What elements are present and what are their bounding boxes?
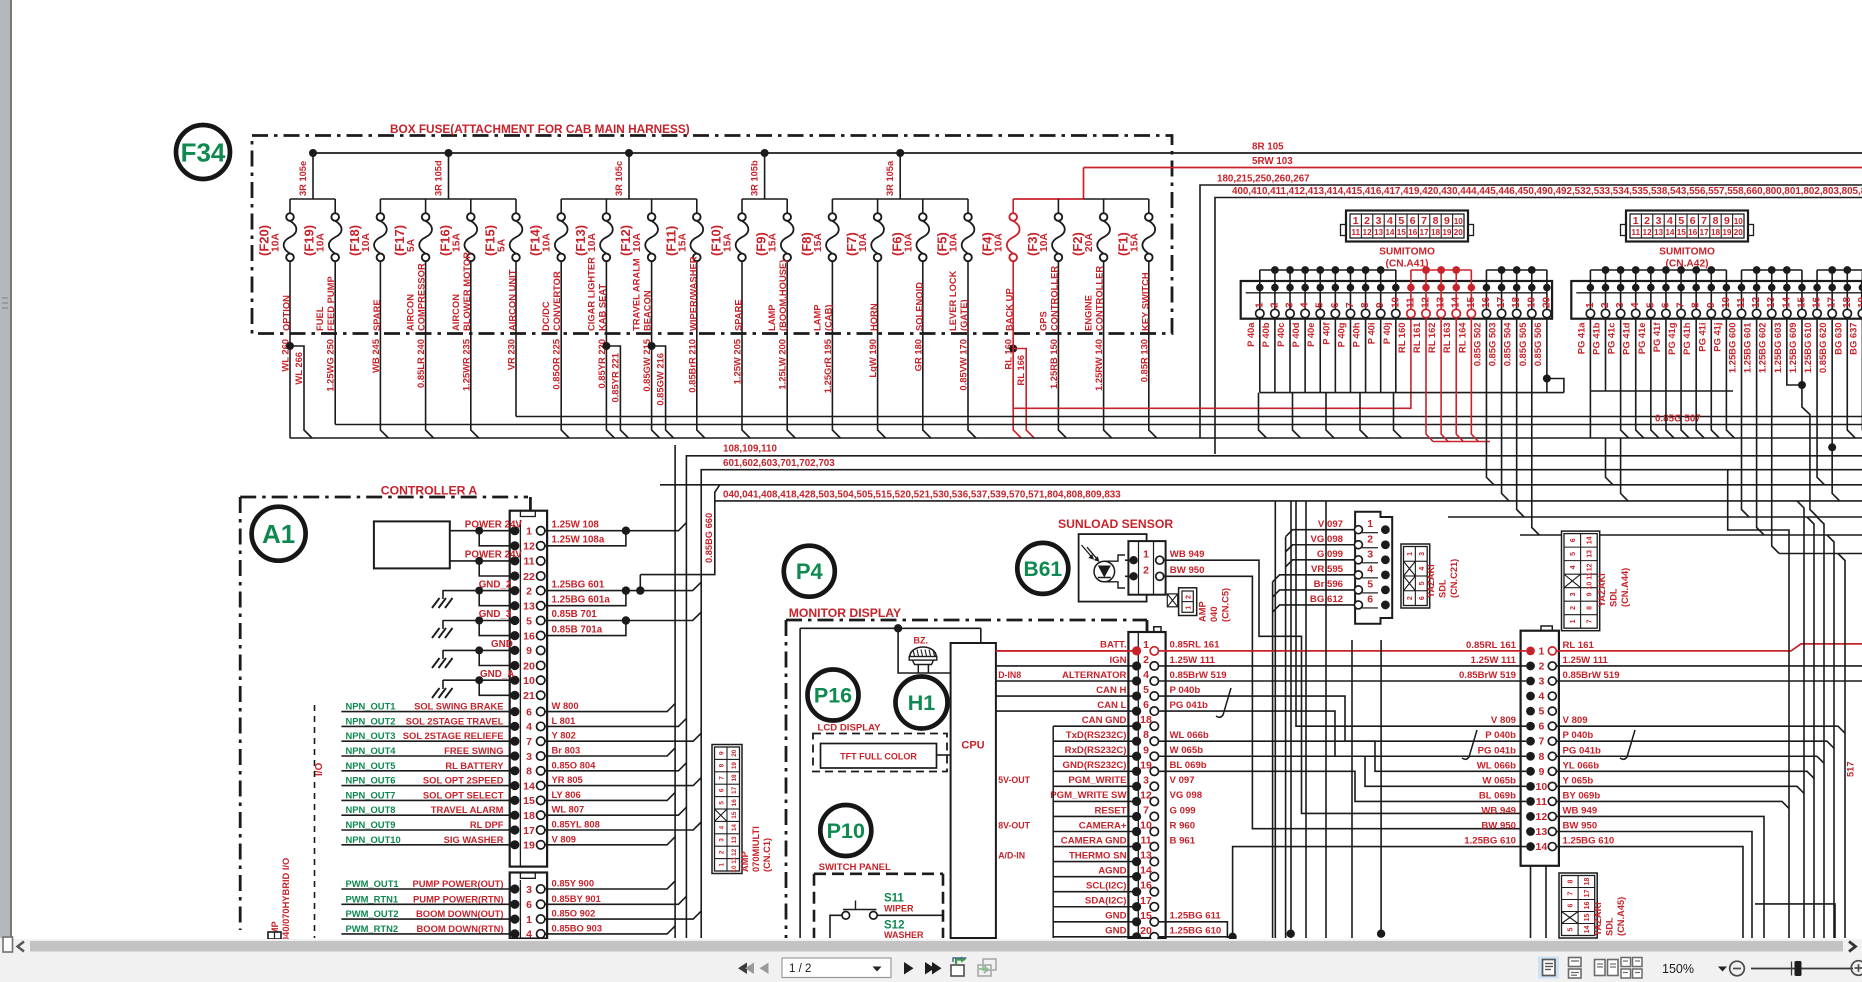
- TFT FULL COLOR block: [821, 744, 937, 769]
- svg-text:NPN_OUT6: NPN_OUT6: [346, 775, 396, 786]
- svg-text:10 11: 10 11: [1586, 572, 1593, 589]
- svg-text:5: 5: [1367, 578, 1373, 590]
- CN.A42 group bus PG41: [1590, 269, 1726, 271]
- svg-text:19: 19: [731, 762, 738, 770]
- svg-text:2: 2: [718, 850, 725, 854]
- svg-text:3: 3: [1570, 592, 1577, 596]
- svg-text:THERMO SN: THERMO SN: [1069, 850, 1127, 861]
- svg-text:0.85G 502: 0.85G 502: [1471, 323, 1482, 367]
- svg-text:3R 105e: 3R 105e: [298, 161, 308, 196]
- svg-text:13: 13: [1536, 826, 1548, 838]
- svg-text:10A: 10A: [858, 233, 869, 252]
- monitor row CAMERA+ pin 10: [1053, 820, 1195, 837]
- connector body: [1571, 281, 1862, 319]
- monitor row IGN pin 2: [996, 654, 1216, 671]
- wires A42 pins to lower trunks: [1606, 438, 1614, 485]
- toolbar layout icon single page active: [1538, 957, 1559, 979]
- svg-text:8R 105: 8R 105: [1252, 142, 1284, 153]
- monitor row RESET pin 7: [1053, 804, 1195, 821]
- svg-text:0.85B 701: 0.85B 701: [552, 609, 598, 620]
- fuse F8: [799, 199, 839, 333]
- connector map CN.A44: [1562, 531, 1600, 631]
- svg-text:0.85VW 170: 0.85VW 170: [958, 339, 969, 391]
- mid connector right wires: [1557, 726, 1846, 733]
- wire YR 805 row NPN_OUT6: [341, 774, 701, 786]
- mid connector pin 12: [1481, 805, 1597, 823]
- wires P40 gather down: [1259, 393, 1267, 438]
- mid connector pin 11: [1479, 790, 1600, 808]
- svg-text:(F6): (F6): [889, 232, 904, 256]
- svg-text:1.25BG 601a: 1.25BG 601a: [552, 594, 611, 605]
- svg-text:10 11: 10 11: [731, 857, 738, 873]
- pin 4 PG 41d: [1621, 270, 1642, 355]
- svg-text:P 40h: P 40h: [1351, 322, 1362, 347]
- wire 1.25BG 610: [1159, 936, 1233, 938]
- monitor row GND pin 15: [1053, 910, 1221, 927]
- svg-text:5: 5: [1567, 927, 1574, 931]
- fuse F16: [437, 199, 477, 333]
- svg-text:150%: 150%: [1662, 962, 1694, 976]
- svg-text:10A: 10A: [1039, 233, 1050, 252]
- svg-text:6: 6: [1567, 903, 1574, 907]
- fuse F10: [709, 199, 749, 333]
- svg-text:0.85BO 903: 0.85BO 903: [552, 922, 603, 933]
- svg-text:15: 15: [1466, 296, 1477, 308]
- svg-text:P 40e: P 40e: [1305, 323, 1316, 347]
- svg-text:0.85O 902: 0.85O 902: [552, 908, 596, 919]
- svg-text:4: 4: [1570, 565, 1577, 569]
- fuse F2: [1070, 199, 1110, 333]
- svg-text:WL 066b: WL 066b: [1477, 760, 1516, 771]
- svg-text:P 40d: P 40d: [1290, 322, 1301, 347]
- svg-text:8: 8: [1691, 302, 1702, 308]
- svg-text:P 40b: P 40b: [1260, 322, 1271, 347]
- svg-text:108,109,110: 108,109,110: [723, 444, 777, 455]
- svg-text:DC/DC: DC/DC: [540, 301, 551, 331]
- pin 2 PG 41b: [1591, 270, 1612, 355]
- svg-text:BOOM DOWN(OUT): BOOM DOWN(OUT): [416, 908, 503, 919]
- svg-text:W 800: W 800: [552, 700, 579, 711]
- svg-text:1.25BG 610: 1.25BG 610: [1802, 323, 1813, 374]
- trunk 601,602,603,701,702,703: [701, 470, 1862, 938]
- svg-text:BOOM DOWN(RTN): BOOM DOWN(RTN): [417, 923, 504, 934]
- CN.A41 group bus P40: [1260, 269, 1396, 271]
- svg-text:15: 15: [1397, 228, 1407, 237]
- mid connector pin 1: [1466, 640, 1594, 658]
- controller pin 6: [510, 899, 545, 911]
- svg-text:20: 20: [1454, 228, 1464, 237]
- svg-text:LAMP: LAMP: [811, 304, 822, 331]
- svg-text:GND_A: GND_A: [480, 669, 514, 680]
- svg-text:SDA(I2C): SDA(I2C): [1085, 896, 1127, 907]
- svg-text:(CAB): (CAB): [822, 304, 833, 331]
- svg-text:SCL(I2C): SCL(I2C): [1086, 881, 1127, 892]
- svg-text:YR 805: YR 805: [552, 774, 583, 785]
- wire 0.85YL 808 row NPN_OUT9: [341, 819, 701, 831]
- svg-text:0.85GW 216: 0.85GW 216: [655, 353, 666, 406]
- svg-text:15: 15: [523, 795, 535, 807]
- svg-text:16: 16: [1688, 228, 1698, 237]
- svg-text:(BOOM,HOUSE): (BOOM,HOUSE): [777, 260, 788, 331]
- svg-text:AGND: AGND: [1098, 865, 1126, 876]
- svg-text:0.85B 701a: 0.85B 701a: [552, 624, 603, 635]
- svg-text:6: 6: [1660, 302, 1671, 308]
- svg-text:3: 3: [1376, 215, 1382, 227]
- toolbar last page button: [925, 962, 935, 975]
- bus junction dots: [309, 149, 317, 157]
- svg-text:3R 105a: 3R 105a: [885, 160, 895, 196]
- monitor row SDA(I2C) pin 17: [1053, 895, 1158, 912]
- svg-text:P 40j: P 40j: [1381, 323, 1392, 345]
- trunk y484: [660, 484, 1862, 486]
- svg-text:3: 3: [1367, 548, 1373, 560]
- svg-text:BEACON: BEACON: [642, 290, 653, 331]
- svg-text:3R 105d: 3R 105d: [434, 160, 444, 196]
- svg-text:18: 18: [523, 810, 535, 822]
- svg-text:SDL: SDL: [1609, 588, 1619, 607]
- svg-text:15: 15: [1677, 228, 1687, 237]
- mid connector pin 7: [1485, 730, 1593, 748]
- svg-text:5: 5: [1315, 302, 1326, 308]
- svg-text:4: 4: [1300, 302, 1311, 308]
- CN.A42 group bus 1.25BG: [1742, 269, 1802, 271]
- svg-text:PG 041b: PG 041b: [1478, 745, 1517, 756]
- svg-text:PGM_WRITE SW: PGM_WRITE SW: [1050, 790, 1127, 801]
- node P10: [820, 805, 871, 856]
- pin 15 1.25BG 609: [1787, 270, 1808, 373]
- sunload pin 1: [1129, 556, 1137, 564]
- svg-text:TRAVEL ALARM: TRAVEL ALARM: [431, 804, 504, 815]
- svg-text:(F9): (F9): [754, 232, 769, 256]
- svg-text:6: 6: [1143, 699, 1149, 711]
- wire V 809 row NPN_OUT10: [341, 833, 675, 845]
- svg-text:NPN_OUT1: NPN_OUT1: [346, 701, 396, 712]
- svg-text:2: 2: [1538, 660, 1544, 672]
- svg-text:10: 10: [1721, 296, 1732, 308]
- svg-text:(F4): (F4): [980, 232, 995, 256]
- svg-text:GND: GND: [1105, 911, 1126, 922]
- pin 19 BG 637: [1847, 270, 1862, 355]
- svg-text:15A: 15A: [451, 233, 462, 252]
- svg-text:SOL OPT SELECT: SOL OPT SELECT: [423, 789, 504, 800]
- svg-text:12: 12: [731, 848, 738, 856]
- svg-text:CONTROLLER: CONTROLLER: [1048, 266, 1059, 331]
- monitor row ALTERNATOR pin 4: [996, 669, 1227, 686]
- svg-text:8: 8: [718, 763, 725, 767]
- svg-text:V 809: V 809: [1563, 715, 1588, 726]
- svg-text:5: 5: [1143, 684, 1149, 696]
- svg-text:517: 517: [1846, 761, 1856, 777]
- svg-text:LCD DISPLAY: LCD DISPLAY: [818, 723, 882, 734]
- controller pin 8: [510, 766, 545, 778]
- svg-text:20: 20: [1541, 296, 1552, 308]
- wire PG pin1 down: [1589, 391, 1591, 438]
- svg-text:17: 17: [1827, 296, 1838, 308]
- fuse F18: [347, 199, 387, 333]
- svg-text:WASHER: WASHER: [884, 930, 924, 940]
- svg-text:13: 13: [1586, 550, 1593, 558]
- svg-text:VG 098: VG 098: [1310, 534, 1343, 545]
- svg-text:0.85G 505: 0.85G 505: [1517, 323, 1528, 367]
- svg-text:13: 13: [1766, 296, 1777, 308]
- svg-text:9: 9: [526, 645, 532, 657]
- svg-text:RL 162: RL 162: [1426, 323, 1437, 354]
- svg-text:(F19): (F19): [302, 225, 317, 256]
- fuse F12: [618, 199, 658, 333]
- bus 8R 105: [313, 152, 1862, 154]
- mid connector pin 6: [1491, 715, 1588, 733]
- svg-text:3R 105b: 3R 105b: [750, 160, 760, 196]
- pin 6 P 40f: [1320, 270, 1341, 345]
- controller pin 10: [510, 675, 545, 687]
- svg-text:(F17): (F17): [392, 225, 407, 256]
- svg-text:(F3): (F3): [1025, 232, 1040, 256]
- svg-text:13: 13: [1436, 296, 1447, 308]
- svg-text:13: 13: [731, 836, 738, 844]
- svg-text:19: 19: [1526, 296, 1537, 308]
- svg-text:3: 3: [526, 884, 532, 896]
- svg-text:1.25BG 603: 1.25BG 603: [1772, 323, 1783, 374]
- svg-text:LgW 190: LgW 190: [867, 339, 878, 378]
- left sidebar strip: [0, 0, 10, 938]
- svg-text:2: 2: [1570, 606, 1577, 610]
- wire Y 802 row NPN_OUT3: [341, 730, 701, 742]
- verticals to page bottom middle: [1274, 501, 1276, 938]
- toolbar layout icon two pages continuous: [1621, 958, 1631, 967]
- svg-text:13: 13: [1654, 228, 1664, 237]
- wire 0.85Y 900 row PWM_OUT1: [341, 878, 675, 890]
- svg-text:(F2): (F2): [1070, 232, 1085, 256]
- svg-text:GND: GND: [1105, 926, 1126, 937]
- svg-text:(CN.A42): (CN.A42): [1665, 259, 1708, 270]
- svg-text:601,602,603,701,702,703: 601,602,603,701,702,703: [723, 458, 835, 469]
- fuse F17: [392, 199, 432, 333]
- monitor row THERMO SN pin 13: [1053, 850, 1158, 867]
- svg-text:15A: 15A: [1129, 233, 1140, 252]
- wire 0.85O 902 row PWM_OUT2: [341, 908, 701, 920]
- svg-text:(F11): (F11): [663, 226, 678, 256]
- svg-text:9: 9: [1586, 592, 1593, 596]
- wires 1.25BG down: [1742, 319, 1750, 517]
- right mesh long verticals: [1797, 501, 1804, 938]
- fuse F7: [844, 199, 884, 333]
- svg-text:WB 949: WB 949: [1563, 805, 1598, 816]
- svg-text:5: 5: [718, 801, 725, 805]
- svg-text:1.25RB 150: 1.25RB 150: [1048, 339, 1059, 389]
- pin 6 PG 41f: [1651, 270, 1672, 352]
- connector map AMP 070MIULTI (CN.C1): [712, 745, 742, 874]
- svg-text:9: 9: [1724, 215, 1730, 227]
- svg-text:180,215,250,260,267: 180,215,250,260,267: [1217, 174, 1310, 185]
- svg-text:KEY SWITCH: KEY SWITCH: [1139, 272, 1150, 331]
- controller power block: [374, 521, 450, 568]
- svg-text:8: 8: [1143, 729, 1149, 741]
- wire 0.85O 804 row NPN_OUT5: [341, 759, 686, 771]
- CN.A41 under-body wires: [1260, 392, 1564, 394]
- svg-text:(F14): (F14): [528, 225, 543, 256]
- controller internal dashed boundary: [314, 705, 316, 938]
- wire Br 803 row NPN_OUT4: [341, 745, 675, 757]
- controller pin 3: [510, 884, 545, 896]
- connector pin grid (CN.A41): [1341, 211, 1474, 270]
- svg-text:4: 4: [1387, 215, 1393, 227]
- svg-text:PGM_WRITE: PGM_WRITE: [1068, 775, 1127, 786]
- svg-text:P16: P16: [814, 684, 852, 708]
- svg-text:2: 2: [1367, 533, 1373, 545]
- pin 5 PG 41e: [1636, 270, 1657, 354]
- svg-text:16: 16: [1408, 228, 1418, 237]
- controller pin 7: [510, 736, 545, 748]
- svg-text:WIPER/WASHER: WIPER/WASHER: [687, 256, 698, 331]
- mid connector bottom stubs: [1530, 866, 1532, 938]
- svg-text:16: 16: [1481, 296, 1492, 308]
- pin 19 0.85G 505: [1517, 270, 1538, 366]
- svg-text:RL 161: RL 161: [1411, 323, 1422, 354]
- pin 12 1.25BG 601: [1742, 270, 1763, 373]
- svg-text:2: 2: [1143, 654, 1149, 666]
- twisted pair slashes: [1216, 688, 1231, 717]
- svg-text:15: 15: [1796, 296, 1807, 308]
- mid connector pin 9: [1477, 760, 1600, 778]
- vertical pair down from trunks right: [1728, 470, 1789, 938]
- svg-text:0.85BY 901: 0.85BY 901: [552, 893, 601, 904]
- svg-text:10A: 10A: [542, 233, 553, 252]
- pin 16 1.25BG 610: [1802, 270, 1823, 373]
- svg-text:YAZAKI: YAZAKI: [1593, 902, 1603, 936]
- svg-text:6: 6: [1538, 721, 1544, 733]
- svg-text:V 097: V 097: [1318, 519, 1343, 530]
- svg-text:17: 17: [1496, 296, 1507, 308]
- svg-text:PG 41j: PG 41j: [1711, 323, 1722, 352]
- svg-text:PG 41g: PG 41g: [1666, 322, 1677, 355]
- svg-text:6: 6: [526, 706, 532, 718]
- svg-text:1.25GrR 195: 1.25GrR 195: [822, 339, 833, 393]
- svg-text:15A: 15A: [768, 233, 779, 252]
- svg-text:P 040b: P 040b: [1563, 730, 1594, 741]
- svg-text:OPTION: OPTION: [281, 295, 292, 331]
- CPU box: [951, 643, 996, 938]
- svg-text:1: 1: [1570, 619, 1577, 623]
- svg-text:CONTROLLER: CONTROLLER: [1094, 266, 1105, 331]
- svg-text:10A: 10A: [271, 233, 282, 252]
- svg-text:16: 16: [1812, 296, 1823, 308]
- monitor row RxD(RS232C) pin 9: [1053, 744, 1203, 761]
- svg-text:17: 17: [1584, 890, 1591, 898]
- svg-text:NPN_OUT5: NPN_OUT5: [346, 760, 396, 771]
- svg-text:3: 3: [526, 751, 532, 763]
- trunk y517: [1448, 516, 1862, 518]
- controller pin 13: [510, 601, 545, 613]
- svg-text:RL DPF: RL DPF: [470, 819, 504, 830]
- svg-text:14: 14: [1385, 228, 1395, 237]
- svg-text:20: 20: [1734, 228, 1744, 237]
- mid connector pin 4: [1526, 691, 1556, 703]
- svg-text:1.25BG 611: 1.25BG 611: [1170, 911, 1222, 922]
- bus 5RW 103: [1084, 167, 1862, 169]
- svg-text:BLOWER MOTOR: BLOWER MOTOR: [461, 252, 472, 331]
- monitor row CAN L pin 6: [996, 699, 1208, 716]
- sunload pin 2: [1129, 572, 1137, 580]
- fuse group rails: [290, 198, 335, 200]
- svg-text:GPS: GPS: [1037, 311, 1048, 331]
- connector pin grid (CN.A42): [1621, 211, 1754, 270]
- svg-text:3: 3: [718, 838, 725, 842]
- svg-text:CAMERA+: CAMERA+: [1079, 820, 1127, 831]
- bus 400 group: [1215, 198, 1862, 455]
- svg-text:10: 10: [1454, 217, 1464, 226]
- pin 5 P 40e: [1305, 270, 1326, 347]
- pin 13 1.25BG 602: [1757, 270, 1778, 373]
- pin 11 1.25BG 600: [1727, 270, 1748, 373]
- svg-text:20: 20: [731, 749, 738, 757]
- svg-text:1: 1: [1538, 645, 1544, 657]
- svg-text:8: 8: [1433, 215, 1439, 227]
- wire 1.25BG 611: [1159, 922, 1228, 938]
- svg-text:5: 5: [1645, 302, 1656, 308]
- svg-text:IGN: IGN: [1109, 655, 1126, 666]
- svg-text:1: 1: [1407, 552, 1414, 556]
- trunk y438: [290, 437, 1862, 439]
- controller pin 21: [510, 690, 545, 702]
- wire 1.25W 111: [1159, 665, 1527, 667]
- monitor row CAMERA GND pin 11: [1053, 835, 1196, 852]
- wire WL 807 row NPN_OUT8: [341, 804, 686, 816]
- svg-text:2: 2: [1186, 595, 1193, 599]
- svg-text:14: 14: [1586, 536, 1593, 544]
- svg-text:AMP: AMP: [740, 851, 750, 872]
- connector map CN.A45: [1559, 873, 1597, 938]
- LCD dashed box: [813, 734, 947, 772]
- svg-text:P 40a: P 40a: [1245, 322, 1256, 347]
- svg-text:SOL SWING BRAKE: SOL SWING BRAKE: [414, 701, 503, 712]
- svg-text:7: 7: [1586, 619, 1593, 623]
- svg-text:NPN_OUT9: NPN_OUT9: [346, 819, 396, 830]
- controller connector body 1: [510, 511, 547, 867]
- svg-text:AIRCON: AIRCON: [450, 294, 461, 331]
- svg-text:12: 12: [523, 541, 535, 553]
- svg-text:0.85RL 161: 0.85RL 161: [1170, 640, 1221, 651]
- fuse F4: [980, 199, 1020, 333]
- svg-text:B61: B61: [1024, 558, 1063, 581]
- CN.A42 group bus BG: [1817, 269, 1862, 271]
- svg-text:13: 13: [523, 601, 535, 613]
- svg-text:AIRCON UNIT: AIRCON UNIT: [507, 269, 518, 331]
- CN.C21 pin 3 G 099: [1286, 548, 1390, 567]
- trunk y424: [335, 424, 1862, 426]
- svg-text:CAMERA GND: CAMERA GND: [1061, 835, 1127, 846]
- svg-text:PUMP POWER(RTN): PUMP POWER(RTN): [413, 893, 503, 904]
- svg-text:PG 41f: PG 41f: [1651, 322, 1662, 353]
- wire 0.85GW 216 branch: [648, 342, 656, 350]
- svg-text:FREE SWING: FREE SWING: [444, 745, 503, 756]
- connector map CN.C21: [1401, 544, 1430, 608]
- svg-text:P 040b: P 040b: [1485, 730, 1516, 741]
- pin 2 P 40b: [1260, 270, 1281, 347]
- svg-text:2: 2: [1143, 565, 1149, 577]
- svg-text:9: 9: [1538, 766, 1544, 778]
- svg-text:(CN.A45): (CN.A45): [1616, 897, 1626, 936]
- svg-text:1: 1: [718, 863, 725, 867]
- svg-text:5: 5: [1678, 215, 1684, 227]
- svg-text:CAN GND: CAN GND: [1082, 715, 1127, 726]
- svg-text:6: 6: [718, 788, 725, 792]
- svg-text:16: 16: [1584, 902, 1591, 910]
- node P4: [784, 546, 835, 597]
- svg-text:(F1): (F1): [1115, 232, 1130, 256]
- svg-text:BW 950: BW 950: [1563, 821, 1598, 832]
- wire 0.85YR 221 branch: [602, 342, 610, 350]
- svg-text:P 40g: P 40g: [1335, 322, 1346, 347]
